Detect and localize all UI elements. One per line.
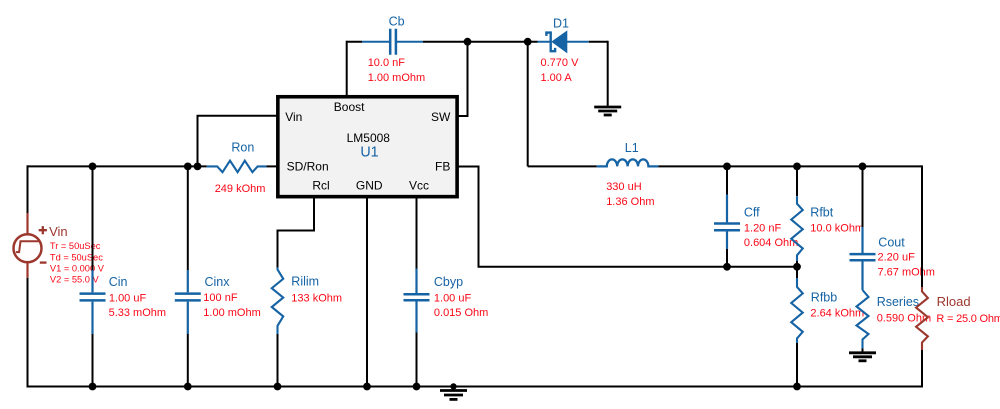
wire Ron to SD/Ron pin	[266, 165, 277, 167]
wire Rilim to bottom rail	[277, 334, 279, 387]
pin label Vcc	[409, 179, 429, 193]
svg-text:Boost: Boost	[334, 100, 365, 114]
svg-text:0.770 V: 0.770 V	[541, 57, 580, 69]
junction mid rail at Cin	[89, 163, 97, 171]
svg-text:330 uH: 330 uH	[606, 181, 642, 193]
wire right drop to Rload	[921, 165, 923, 287]
label Cout	[878, 236, 905, 250]
svg-text:Cff: Cff	[744, 205, 760, 219]
svg-text:Rfbt: Rfbt	[810, 205, 833, 219]
label Rfbt	[810, 205, 833, 219]
value Rseries	[877, 313, 931, 325]
svg-text:0.015 Ohm: 0.015 Ohm	[434, 307, 488, 319]
wire Rfbb branch upper	[796, 267, 798, 278]
svg-text:1.00 uF: 1.00 uF	[434, 292, 472, 304]
svg-text:FB: FB	[435, 160, 450, 174]
wire Cin branch upper	[92, 166, 94, 270]
pin label SD/Ron	[287, 160, 329, 174]
junction output rail at Rfbt	[793, 163, 801, 171]
label D1	[553, 16, 569, 30]
svg-text:V1 = 0.000 V: V1 = 0.000 V	[50, 263, 105, 273]
ground symbol under Rseries	[849, 349, 876, 361]
junction output rail at Cff	[723, 163, 731, 171]
wire Cff branch lower	[726, 249, 728, 267]
pin label Rcl	[312, 179, 329, 193]
svg-text:Td = 50uSec: Td = 50uSec	[50, 252, 103, 262]
capacitor Cff	[714, 195, 740, 250]
svg-text:Vin: Vin	[285, 110, 302, 124]
wire Cinx branch lower	[187, 334, 189, 387]
label Rseries	[877, 295, 919, 309]
value Rfbb	[810, 307, 864, 319]
wire D1 anode to ground drop	[607, 41, 609, 107]
junction bottom rail at ground	[450, 383, 456, 389]
svg-text:1.00 A: 1.00 A	[541, 72, 573, 84]
capacitor Cout	[850, 227, 876, 290]
svg-text:133 kOhm: 133 kOhm	[291, 293, 342, 305]
label Cinx	[205, 275, 231, 289]
svg-text:10.0 nF: 10.0 nF	[368, 57, 406, 69]
svg-text:Rfbb: Rfbb	[811, 290, 837, 304]
svg-text:Vcc: Vcc	[409, 179, 429, 193]
svg-text:1.00 mOhm: 1.00 mOhm	[203, 307, 260, 319]
wire Cout branch upper	[862, 166, 864, 227]
svg-text:Rseries: Rseries	[877, 295, 919, 309]
junction bottom rail at Cin	[89, 383, 97, 391]
svg-text:U1: U1	[360, 144, 378, 160]
svg-text:LM5008: LM5008	[347, 131, 391, 145]
wire Cff branch upper	[726, 166, 728, 195]
wire Rload to bottom rail	[921, 350, 923, 388]
junction top rail at SW node drop	[524, 38, 532, 46]
label Rload	[937, 294, 971, 309]
svg-text:100 nF: 100 nF	[203, 292, 238, 304]
svg-text:Cb: Cb	[389, 15, 405, 29]
pin label SW	[431, 110, 451, 124]
label Rilim	[291, 275, 319, 289]
pin label Boost	[334, 100, 365, 114]
svg-text:GND: GND	[356, 179, 383, 193]
wire output rail left of L1	[528, 165, 597, 167]
wire top rail (Boost/Cb/SW/D1 net)	[347, 41, 608, 43]
svg-text:10.0 kOhm: 10.0 kOhm	[810, 222, 864, 234]
svg-text:Cout: Cout	[878, 236, 905, 250]
value Cff	[744, 222, 798, 249]
svg-text:SW: SW	[431, 110, 451, 124]
junction bottom rail at Cinx	[184, 383, 192, 391]
pin label GND	[356, 179, 383, 193]
svg-text:Cinx: Cinx	[205, 275, 231, 289]
svg-text:Cin: Cin	[109, 275, 128, 289]
pin label FB	[435, 160, 450, 174]
wire Vcc branch lower	[416, 332, 418, 387]
svg-text:Cbyp: Cbyp	[434, 275, 463, 289]
junction feedback rail at Cff	[723, 263, 731, 271]
svg-text:Rcl: Rcl	[312, 179, 329, 193]
wire FB pin to feedback rail	[457, 167, 797, 267]
label LM5008	[347, 131, 391, 145]
junction bottom rail at GND	[363, 383, 371, 391]
svg-text:R = 25.0 Ohm: R = 25.0 Ohm	[936, 313, 1000, 325]
resistor Rfbt	[791, 196, 803, 261]
voltage source Vin	[14, 213, 47, 278]
junction output rail at Cout	[859, 163, 867, 171]
inductor L1	[597, 159, 659, 166]
wire GND pin to bottom rail	[366, 197, 368, 387]
value Rilim	[291, 293, 342, 305]
pin label Vin	[285, 110, 302, 124]
label U1	[360, 144, 378, 160]
value Cout	[878, 252, 935, 279]
capacitor Cin	[80, 270, 106, 334]
wire Rfbb to bottom rail	[796, 343, 798, 387]
capacitor Cinx	[175, 270, 201, 334]
wire riser to Vin pin	[198, 116, 278, 167]
svg-text:2.20 uF: 2.20 uF	[878, 252, 916, 264]
label Cin	[109, 275, 128, 289]
wire mid-left rail (Vin net)	[27, 165, 207, 167]
svg-text:Rload: Rload	[937, 294, 971, 309]
svg-text:L1: L1	[625, 141, 639, 155]
label Cff	[744, 205, 760, 219]
wire Boost pin riser	[346, 41, 348, 97]
junction bottom rail at Rilim	[274, 383, 282, 391]
junction bottom rail at Cbyp	[413, 383, 421, 391]
label L1	[625, 141, 639, 155]
svg-text:1.00 uF: 1.00 uF	[109, 292, 147, 304]
wire output rail right of L1	[658, 165, 922, 167]
capacitor Cb	[362, 29, 423, 55]
junction bottom rail at Rfbb	[793, 383, 801, 391]
capacitor Cbyp	[404, 269, 430, 333]
wire SW node drop to L1	[527, 42, 529, 167]
diode D1	[538, 31, 589, 52]
value Cb	[368, 57, 425, 84]
resistor Ron	[207, 161, 267, 173]
resistor Rfbb	[791, 278, 803, 343]
label Rfbb	[811, 290, 837, 304]
value Vin source params	[50, 241, 105, 284]
label Vin source	[49, 224, 68, 239]
wire Cin branch lower	[92, 334, 94, 387]
junction top rail at SW riser	[464, 38, 472, 46]
junction mid rail at Cinx	[184, 163, 192, 171]
svg-text:Ron: Ron	[231, 140, 254, 154]
wire Cinx branch upper	[187, 166, 189, 270]
junction mid rail at Vin pin riser	[194, 163, 202, 171]
wire Rfbt branch lower	[796, 261, 798, 267]
svg-text:Vin: Vin	[49, 224, 68, 239]
svg-text:D1: D1	[553, 16, 569, 30]
resistor Rload	[916, 287, 928, 350]
value Cin	[109, 292, 166, 319]
wire Rfbt branch upper	[796, 166, 798, 196]
svg-text:7.67 mOhm: 7.67 mOhm	[878, 266, 935, 278]
svg-text:5.33 mOhm: 5.33 mOhm	[109, 307, 166, 319]
value Ron	[215, 183, 266, 195]
value Cinx	[203, 292, 260, 319]
junction feedback rail at Rfbt/Rfbb	[793, 263, 801, 271]
wire bottom rail	[27, 386, 924, 388]
value D1	[541, 57, 580, 84]
svg-text:1.00 mOhm: 1.00 mOhm	[368, 72, 425, 84]
svg-text:Rilim: Rilim	[291, 275, 319, 289]
resistor Rseries	[857, 290, 869, 349]
wire left rail upper	[27, 165, 29, 213]
value Rload	[936, 313, 1000, 325]
svg-text:SD/Ron: SD/Ron	[287, 160, 329, 174]
svg-text:249 kOhm: 249 kOhm	[215, 183, 266, 195]
wire SW pin to top rail	[457, 42, 468, 116]
ground symbol under D1	[594, 107, 621, 115]
value Cbyp	[434, 292, 488, 319]
resistor Rilim	[272, 267, 284, 334]
value Rfbt	[810, 222, 864, 234]
value L1	[606, 181, 654, 208]
wire Rcl pin jog to Rilim	[278, 197, 315, 268]
ground symbol bottom center	[440, 387, 467, 400]
IC U1 body	[278, 97, 457, 197]
label Cbyp	[434, 275, 463, 289]
svg-text:1.36 Ohm: 1.36 Ohm	[606, 196, 654, 208]
label Cb	[389, 15, 405, 29]
svg-text:1.20 nF: 1.20 nF	[744, 222, 782, 234]
wire left rail lower	[27, 278, 29, 388]
wire Vcc branch upper	[416, 197, 418, 269]
label Ron	[231, 140, 254, 154]
svg-text:2.64 kOhm: 2.64 kOhm	[810, 307, 864, 319]
